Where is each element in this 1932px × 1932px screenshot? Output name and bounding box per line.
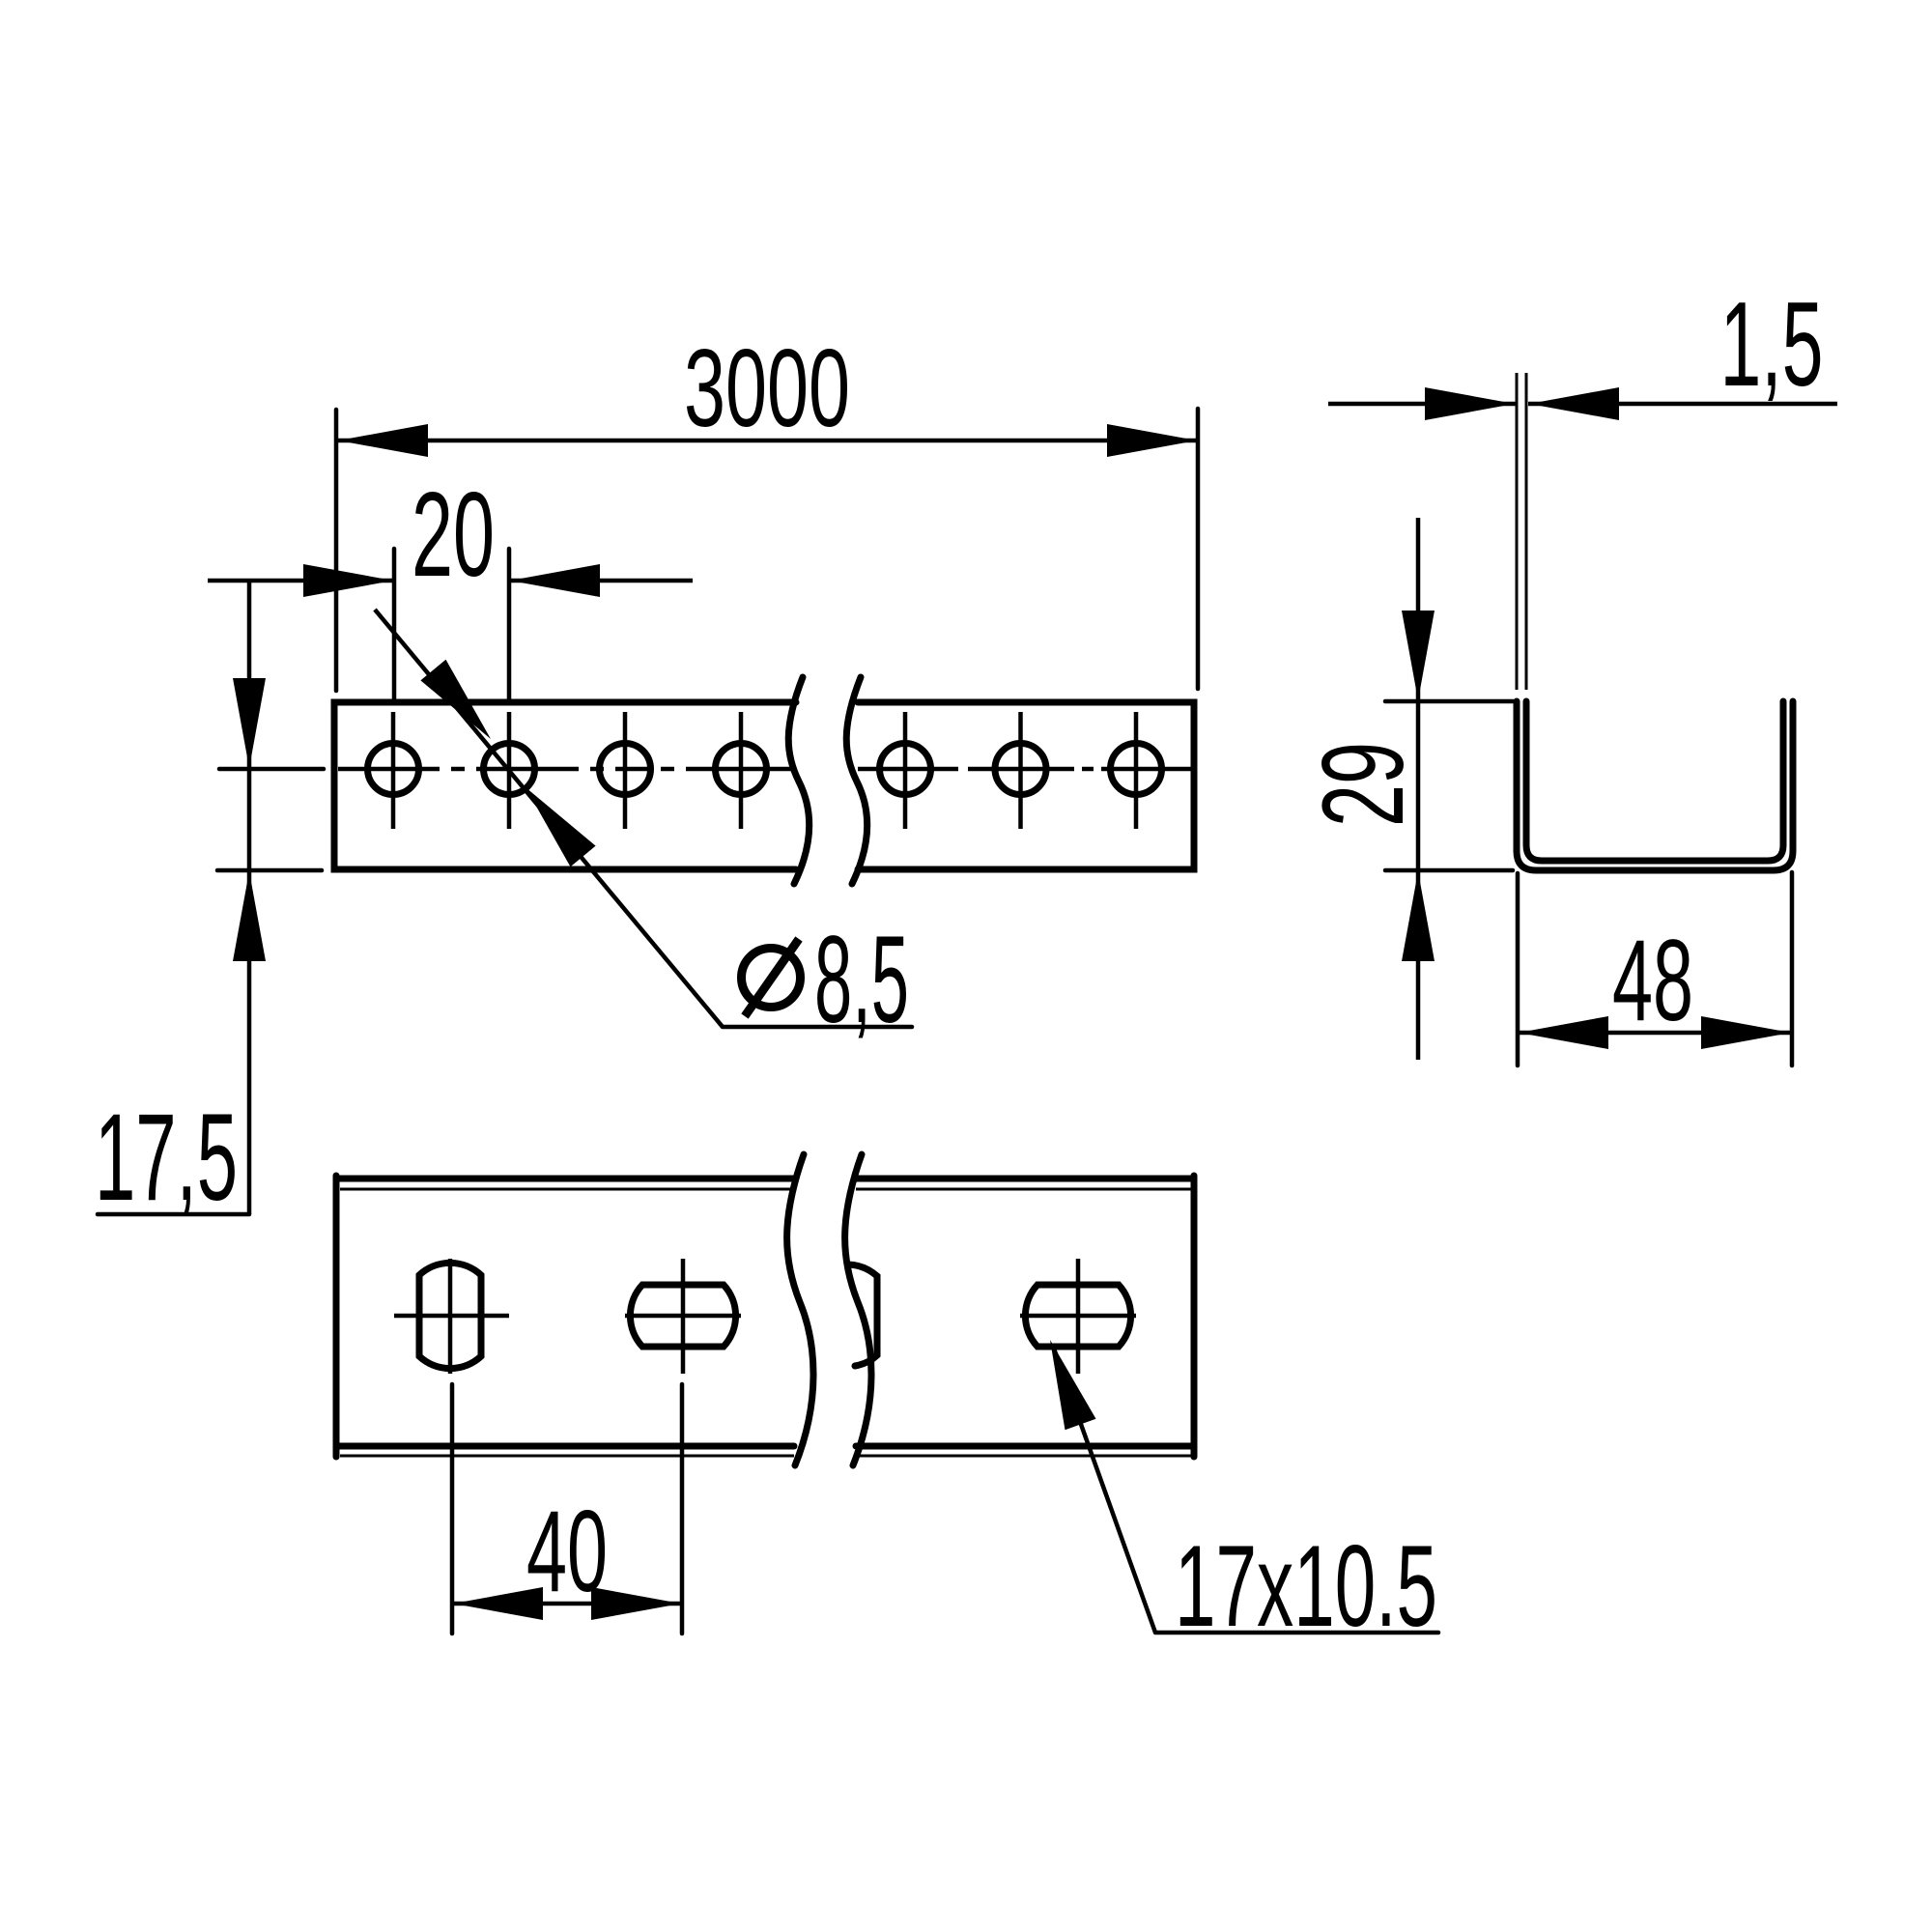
slot size leader (1050, 1340, 1438, 1633)
svg-text:20: 20 (412, 469, 495, 602)
dimension text 40 (526, 1487, 608, 1616)
svg-text:29: 29 (1298, 742, 1428, 827)
slot 2 (horizontal 17x10.5) (625, 1259, 741, 1374)
dimension text 3000 (684, 327, 850, 450)
dimension text 17,5 (95, 1089, 238, 1227)
svg-text:17x10.5: 17x10.5 (1175, 1521, 1437, 1651)
slot 1 (vertical 17x10.5) (394, 1259, 509, 1374)
hole 7 (Ø8,5) (1111, 712, 1162, 829)
bottom view outline (336, 1176, 1194, 1457)
svg-text:40: 40 (526, 1487, 608, 1616)
svg-text:8,5: 8,5 (814, 911, 909, 1049)
cross-section outer profile (1517, 701, 1793, 870)
dimension 17,5 ticks (217, 769, 324, 870)
hole 1 (Ø8,5) (368, 712, 419, 829)
break lines bottom view (787, 1154, 871, 1465)
dimension 1,5 extension lines (1517, 373, 1526, 690)
centerline through holes (338, 767, 1194, 772)
dimension 40 line and arrows (452, 1587, 682, 1620)
hole 4 (Ø8,5) (716, 712, 767, 829)
dimension text 1,5 (1720, 278, 1824, 412)
cross-section inner profile (1526, 701, 1783, 861)
dimension 1,5 line and arrows (1328, 387, 1837, 420)
dimension 40 extension lines (452, 1384, 682, 1634)
dimension 48 extension lines (1518, 872, 1792, 1065)
hole 2 (Ø8,5) (484, 712, 535, 829)
bottom view inner edge lines (340, 1189, 1191, 1456)
dimension 48 line and arrows (1518, 1016, 1792, 1049)
hole 5 (Ø8,5) (880, 712, 931, 829)
hole 3 (Ø8,5) (600, 712, 651, 829)
dimension 20 extension lines (394, 549, 509, 699)
dimension 17,5 line and arrows (98, 581, 266, 1214)
hole diameter symbol (742, 939, 801, 1016)
dimension 29 line and arrows (1402, 518, 1435, 1060)
hole 6 (Ø8,5) (995, 712, 1046, 829)
svg-text:17,5: 17,5 (95, 1089, 238, 1227)
dimension 29 ticks (1385, 701, 1513, 870)
hole diameter leader line (375, 610, 912, 1027)
dimension text 48 (1612, 916, 1693, 1045)
svg-text:1,5: 1,5 (1720, 278, 1824, 412)
dimension 3000 line and arrows (337, 424, 1198, 457)
svg-text:48: 48 (1612, 916, 1693, 1045)
dimension 3000 extension lines (336, 409, 1198, 691)
partial slot at break (848, 1264, 877, 1366)
break lines side view (788, 677, 867, 884)
slot 3 (horizontal 17x10.5) (1020, 1259, 1136, 1374)
dimension 20 line and arrows (208, 564, 693, 597)
dimension text 29 (1298, 742, 1428, 827)
svg-text:3000: 3000 (684, 327, 850, 450)
slot size text 17x10.5 (1175, 1521, 1437, 1651)
hole diameter text 8,5 (814, 911, 909, 1049)
dimension text 20 (412, 469, 495, 602)
side view strip outline (334, 702, 1194, 869)
